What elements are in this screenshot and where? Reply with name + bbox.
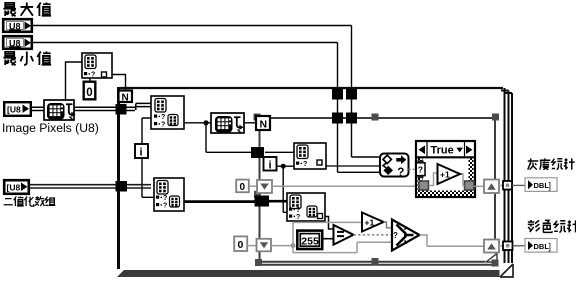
wire tunnel 1 to DBL 1 [512,184,525,186]
outer for loop bottom bar [117,270,502,277]
wire image pixels control to index node [31,107,44,110]
index array node 4 (expanded) [287,193,325,221]
array node 1 (row size) [82,53,112,78]
wire branch down to inner loop tunnel [206,123,255,153]
left shift register 1 [257,180,272,193]
outer loop tunnel 2 [503,242,513,251]
increment node +1 in case [438,164,461,184]
outer loop tunnel 1 [503,181,512,190]
inner loop bottom-right fold corner [486,254,498,264]
wire 0 to left shift register 1 [249,185,257,187]
svg-text:?: ? [393,231,398,240]
boolean dotted wire to case selector [409,168,415,170]
junction gray [291,243,296,248]
svg-text:?: ? [418,165,423,175]
svg-text:]: ] [549,241,552,251]
label 彩色统计 [528,220,576,232]
wire max value [32,26,380,158]
svg-text:DBL: DBL [534,181,550,190]
wire tunnel to node4 [268,200,287,203]
svg-text:i: i [269,160,272,172]
equal? node [334,225,354,245]
wire branch down to node4 [283,166,288,212]
tunnel image pixels on outer left border [116,104,127,115]
wire node1 to 0 constant [89,78,91,81]
svg-text:]: ] [549,181,552,191]
svg-text:0: 0 [86,87,92,99]
wire tunnel 2 to DBL 2 [513,245,526,247]
svg-text:255: 255 [301,235,319,247]
wire node5 out to in-range [326,165,380,167]
tunnel row wire on inner left border [251,147,264,158]
inner loop N terminal [256,116,270,131]
inner loop selection handles [254,114,500,267]
select node (big triangle) [392,220,420,251]
index array node 2 (expanded) [151,96,184,129]
junction node2 out [203,120,208,125]
svg-text:[U8: [U8 [7,183,21,193]
binarized array control [4,180,29,194]
wire nodeB to inner N [244,122,256,124]
outer for loop left border [117,87,120,269]
svg-text:+1: +1 [365,218,375,228]
case selector terminal [416,160,425,178]
svg-text:0: 0 [240,182,246,193]
gray wire up to +1 [293,222,362,245]
wire tunnel to node5 [265,151,294,153]
tunnel binarized on outer left border [116,181,128,192]
boolean dotted wire equal to select [354,234,393,236]
wire +1 to select top [384,222,393,228]
outer loop bottom-right fold corner [500,263,514,277]
wire i terminal up to node2 and down to node3 [142,118,154,197]
outer for loop right border (stacked) [501,88,512,271]
svg-text:Image Pixels (U8): Image Pixels (U8) [2,121,99,135]
svg-text:0: 0 [238,239,244,251]
index array node 5 [294,143,326,169]
constant 0 (under node1) [84,82,96,100]
tunnels max/min on inner top border [332,113,343,124]
gray wire shift register 2 out [271,245,293,247]
right shift register 2 [484,240,499,253]
in range and coerce node [380,154,409,179]
inner loop i terminal [264,157,277,172]
U8 control min [3,36,32,49]
DBL indicator 1 [525,178,557,192]
wire 0 to left shift register 2 [247,245,256,247]
outer for loop top border [119,87,503,89]
svg-text:N: N [260,119,268,131]
case right tunnel [465,181,475,190]
constant 0 (upper) [236,180,249,193]
wire to tunnel 2 [499,245,503,247]
gray wire select out to right shift register 2 [420,235,485,246]
svg-text:[U8: [U8 [7,105,21,115]
index array node 3 (expanded) [154,178,184,211]
U8 control max [3,19,32,32]
wire branch node A up to array size node [66,62,83,100]
label 灰度统计 [528,158,575,170]
wire node4 out to equal [325,217,334,230]
constant 0 (lower) [234,236,247,251]
case left tunnel [419,181,429,190]
case structure [416,141,475,197]
long gray wire to case tunnel [272,185,419,187]
thick wire tunnel to node2 [74,103,152,110]
wire 255 to equal [323,238,334,240]
wire node3 out to inner tunnel [184,200,256,203]
gray wire case to right shift register 1 [474,185,484,187]
thick binarized array wire [29,185,151,188]
constant 255 [297,231,322,249]
inner for loop border [260,117,498,265]
wire inner i out [277,165,296,167]
case internal wires [429,173,465,186]
svg-text:N: N [122,93,129,104]
index array node B (grid + hand) [211,113,244,133]
tunnel binarized on inner left border [255,196,270,207]
label 最大值 [3,2,51,16]
label 最小值 [3,51,51,65]
label 二值化数组 [4,196,56,206]
svg-text:+1: +1 [440,170,450,180]
svg-text:?: ? [397,167,404,179]
DBL indicator 2 [525,239,557,253]
tunnels max/min on outer top border [332,89,343,100]
wire node1 out to outer loop N [112,75,126,91]
svg-text:DBL: DBL [534,242,550,251]
Image Pixels (U8) array control [4,102,31,116]
wire to tunnel 1 [499,185,503,187]
gray wire down around to select bottom [293,242,392,252]
outer loop i terminal [135,144,148,159]
svg-text:i: i [140,147,143,159]
wire min value [32,43,380,173]
increment node lower +1 [362,213,384,232]
index array node A (grid + hand) [44,100,76,120]
outer loop N terminal [119,91,133,104]
right shift register 1 [484,180,499,194]
junction inner i [281,164,286,169]
wire node2 out [184,122,211,124]
left shift register 2 [257,239,272,252]
svg-text:True: True [431,145,454,157]
